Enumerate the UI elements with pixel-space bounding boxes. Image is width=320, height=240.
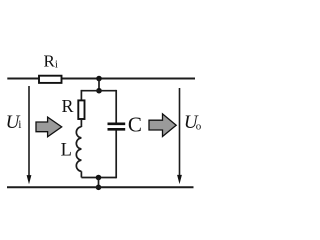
svg-text:o: o (196, 120, 202, 132)
voltage arrow Ui (head) (27, 175, 32, 184)
voltage arrow Ui (line) (28, 86, 30, 178)
svg-text:Ri: Ri (44, 52, 58, 71)
wire parallel bottom bar (81, 177, 116, 179)
node D (bottom rail junction dot) (96, 185, 102, 191)
wire bottom bar to bottom rail (98, 178, 100, 188)
svg-text:L: L (61, 140, 72, 160)
capacitor C top plate (108, 123, 126, 126)
svg-text:R: R (62, 96, 74, 116)
block arrow left (power flow in) (36, 117, 62, 137)
resistor Ri (series input resistor) (39, 76, 62, 83)
svg-text:C: C (128, 112, 142, 136)
wire top rail (7, 78, 195, 80)
svg-text:i: i (18, 119, 21, 131)
wire bottom rail (7, 186, 194, 188)
voltage arrow Uo (head) (177, 175, 182, 184)
wire left branch down to R (80, 90, 82, 101)
wire node A to parallel top bar (98, 79, 100, 91)
capacitor C bottom plate (108, 128, 126, 131)
node C (parallel-section bottom junction dot) (96, 175, 102, 181)
wire L to bottom bar (80, 171, 82, 177)
block arrow right (power flow out) (149, 114, 176, 137)
wire R to L (80, 119, 82, 127)
node B (parallel-section top junction dot) (96, 88, 102, 94)
wire C branch lower (115, 130, 117, 178)
inductor L (4 arcs) (76, 127, 81, 172)
voltage arrow Uo (line) (179, 88, 181, 178)
node A (top junction dot) (96, 76, 102, 82)
resistor R (in RL branch) (78, 100, 84, 119)
wire C branch upper (115, 90, 117, 123)
wire parallel top bar (81, 90, 116, 92)
